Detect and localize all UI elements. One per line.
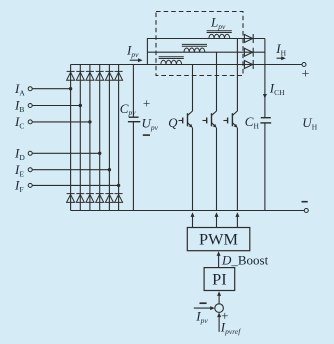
input terminal A [28, 87, 32, 91]
wire: input B [32, 105, 80, 107]
junction node B [79, 104, 82, 107]
wire: CH bottom to negative bus [264, 123, 266, 211]
svg-text:+: + [143, 95, 150, 110]
wire: boost branch 1 (top) [147, 38, 265, 40]
output terminal negative [304, 209, 308, 213]
svg-text:PI: PI [212, 269, 226, 288]
wire: top DC bus to + output [71, 64, 302, 66]
gate drive arrow 3 [235, 212, 239, 227]
Ipvref wire with arrow (plus input) [217, 313, 221, 332]
capacitor Cpv [128, 117, 140, 122]
svg-text:+: + [302, 67, 310, 82]
junction node D [98, 152, 101, 155]
wire: Q3 emitter [236, 128, 238, 211]
wire: input D [32, 152, 100, 154]
wire: Q3 collector [236, 39, 238, 112]
wire: input E [32, 169, 109, 171]
inductor L2 (middle branch) [182, 44, 207, 52]
wire: bottom negative bus [71, 210, 305, 212]
wire: string line 5 [108, 65, 110, 211]
wire: string line 2 [79, 65, 81, 211]
transistor Q1 [179, 111, 193, 128]
wire: Q1 emitter [192, 128, 194, 211]
wire: diode output vertical to CH top [264, 39, 266, 118]
D_Boost arrow into PWM [217, 251, 221, 267]
dashed boost enclosure box [156, 12, 243, 76]
Ipv feedback wire with arrow (minus input) [194, 306, 215, 310]
input terminal C [28, 120, 32, 124]
wire: Cpv upper lead [132, 65, 134, 118]
wire: string line 6 [118, 65, 120, 211]
wire: Q2 collector [216, 52, 218, 111]
wire: Q1 collector [192, 65, 194, 112]
wire: input C [32, 121, 90, 123]
inductor L1 Lpv (top branch) [207, 31, 232, 39]
output terminal positive [302, 63, 306, 67]
capacitor CH [260, 118, 271, 123]
junction node C [88, 120, 91, 123]
wire: string line 4 [99, 65, 101, 211]
label minus at summer [200, 302, 207, 304]
input terminal B [28, 104, 32, 108]
svg-text:PWM: PWM [199, 229, 238, 248]
inductor L3 (bottom branch) [159, 57, 184, 65]
transistor Q2 [203, 111, 217, 128]
wire: Q2 emitter [216, 128, 218, 211]
rectifier top diode row [67, 71, 123, 80]
transistor Q3 [223, 111, 237, 128]
junction node A [69, 87, 72, 90]
svg-text:Q: Q [168, 116, 177, 130]
wire: string line 1 [70, 65, 72, 211]
wire: input A [32, 88, 70, 90]
wire: Cpv lower lead [132, 122, 134, 211]
diode D2 (middle branch) [244, 48, 253, 57]
input terminal F [28, 183, 32, 187]
rectifier bottom diode row [67, 194, 123, 203]
summing junction [215, 304, 224, 313]
wire: boost branch 2 (middle) [147, 51, 265, 53]
PI block [204, 268, 235, 291]
gate drive arrow 1 [191, 212, 195, 227]
PWM block [187, 228, 250, 251]
arrow PI input from summer [217, 291, 221, 304]
wire: string line 3 [89, 65, 91, 211]
input terminal D [28, 151, 32, 155]
diode D3 (bottom branch) [244, 60, 253, 69]
wire: input F [32, 184, 118, 186]
input terminal E [28, 168, 32, 172]
wire: left node vertical joining branches [146, 38, 148, 65]
diode D1 (top branch) [244, 34, 253, 43]
junction node E [108, 168, 111, 171]
svg-text:D_Boost: D_Boost [221, 252, 269, 267]
label minus output [302, 201, 308, 203]
junction node F [117, 184, 120, 187]
label minus Upv [143, 134, 150, 136]
gate drive arrow 2 [215, 212, 219, 227]
